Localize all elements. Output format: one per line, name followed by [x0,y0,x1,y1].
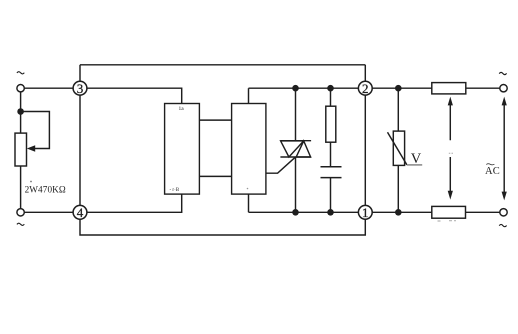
wire triac column top [295,88,297,141]
arrowhead AC arrow top [502,97,507,106]
wire node 4 to block U1 bottom pin [86,194,181,212]
node 4 [73,205,87,220]
svg-text:2W470KΩ: 2W470KΩ [25,185,66,195]
wire terminal TL to node 3 [24,87,73,89]
label ~ at terminal BL [17,223,24,225]
triac Q1 bottom bar [280,156,311,158]
wire triac gate to U2 [266,157,295,173]
potentiometer RP body [15,133,27,166]
label ~ at terminal BR [499,224,506,226]
label faint dot above 2W470KΩ [30,181,32,183]
junction dot snubber top [327,85,334,92]
junction dot at potentiometer tap [17,108,24,115]
junction dot varistor bottom [395,209,402,216]
varistor RV body [393,131,404,165]
wire terminal BL to node 4 [24,211,73,213]
wire stub node 3 top [79,65,81,82]
junction dot varistor top [395,85,402,92]
resistor R1 load top body [432,83,466,94]
terminal TR [500,85,507,92]
wire terminal TL down through junction to potentiometer [20,92,22,133]
terminal BL [17,209,24,216]
wire node 2 to node 1 vertical [364,95,366,206]
node 1 [358,205,372,220]
wire node 3 to node 4 vertical [79,95,81,206]
svg-text:AC: AC [485,166,500,177]
varistor RV diagonal stroke [388,132,407,165]
wire triac column bottom [295,157,297,212]
label faint mark in arrow gap [449,152,453,154]
block U2 body [232,104,266,195]
wire node 1 to resistor R2 and terminal BR [372,211,500,213]
triac Q1 left triangle [281,141,304,157]
wire block U2 top pin to node 2 [249,88,359,103]
capacitor C1 plates [321,167,342,178]
label tiny mark in U2 bottom [247,188,249,190]
wire potentiometer bottom to terminal BL [20,166,22,209]
junction dot triac top [292,85,299,92]
arrowhead R1-R2 arrow top [448,97,453,106]
junction dot triac bottom [292,209,299,216]
wire U1-U2 link lower [199,175,231,177]
svg-text:2: 2 [362,81,369,96]
wire bottom rail from node 4 to node 1 [80,219,365,235]
wire U1-U2 link upper [199,119,231,121]
wire stub node 2 top [364,65,366,82]
wire node 3 to block U1 top pin [86,88,181,103]
arrow AC output shaft [503,104,505,194]
svg-text:V: V [411,151,422,167]
label ~ at terminal TL [17,72,24,74]
arrowhead R1-R2 arrow bottom [448,191,453,200]
varistor RV tail under V [407,164,422,166]
terminal TL [17,85,24,92]
arrow between R1 and R2 shaft [449,104,451,194]
resistor R3 snubber body [326,106,336,142]
arrowhead AC arrow bottom [502,192,507,201]
svg-text:1: 1 [362,205,369,220]
wire block U2 bottom pin to node 1 [249,194,359,212]
triac Q1 right triangle [296,141,310,157]
svg-text:4: 4 [77,205,84,220]
resistor R2 load bottom body [432,206,466,218]
wire snubber column [330,88,332,212]
label ~ at terminal TR [499,72,506,74]
triac Q1 top bar [280,140,311,142]
svg-text:1a: 1a [179,106,185,112]
label tilde over AC [486,164,494,165]
svg-text:3: 3 [77,81,84,96]
node 3 [73,81,87,96]
node 2 [358,81,372,96]
wire wiper loop of potentiometer [21,112,50,149]
block U1 body [165,104,200,195]
svg-text:- r·B: - r·B [170,188,180,193]
wire node 2 to resistor R1 and terminal TR [372,87,500,89]
wire varistor column [397,88,399,212]
arrowhead wiper into potentiometer [27,145,35,151]
label faint mark below R2 [438,220,457,222]
wire top rail from node 3 to node 2 [80,64,365,66]
junction dot snubber bottom [327,209,334,216]
terminal BR [500,209,507,216]
